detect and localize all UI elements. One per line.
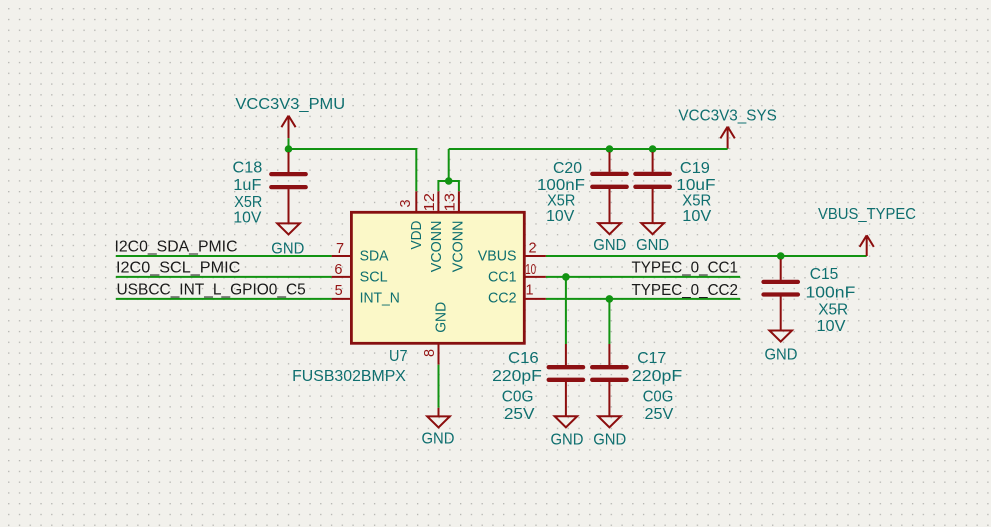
svg-text:SCL: SCL <box>360 270 388 286</box>
svg-text:GND: GND <box>636 237 669 254</box>
wire USBCC_INT_L_GPIO0_C5 <box>116 298 332 300</box>
svg-text:I2C0_SCL_PMIC: I2C0_SCL_PMIC <box>116 260 240 277</box>
wire VCONN to VCC3V3_SYS <box>449 148 728 150</box>
svg-text:TYPEC_0_CC2: TYPEC_0_CC2 <box>632 282 739 299</box>
junction C15 <box>777 252 785 260</box>
junction VCONN <box>445 177 453 185</box>
svg-text:VBUS_TYPEC: VBUS_TYPEC <box>818 206 916 223</box>
pin 1 <box>524 283 546 299</box>
svg-text:VBUS: VBUS <box>478 248 517 264</box>
svg-text:GND: GND <box>593 237 626 254</box>
svg-text:VDD: VDD <box>409 221 425 250</box>
svg-text:VCONN: VCONN <box>429 221 445 273</box>
svg-text:CC2: CC2 <box>488 290 517 306</box>
svg-text:X5R: X5R <box>682 192 711 209</box>
ground below C19 <box>636 223 669 254</box>
ground below C17 <box>593 416 626 448</box>
svg-text:6: 6 <box>334 262 342 278</box>
pin 13 <box>443 191 459 212</box>
svg-text:100nF: 100nF <box>806 285 856 302</box>
svg-text:10: 10 <box>525 262 536 278</box>
wire CC2 to C17 <box>608 299 610 344</box>
svg-text:10V: 10V <box>682 208 712 225</box>
wire GND pin 8 <box>438 365 440 408</box>
capacitor C20 <box>592 152 626 223</box>
wire CC1 <box>546 276 740 278</box>
svg-text:25V: 25V <box>504 406 535 423</box>
wire I2C0_SCL_PMIC <box>116 276 332 278</box>
svg-text:8: 8 <box>422 349 438 357</box>
capacitor C15 <box>764 259 798 331</box>
capacitor C18 <box>271 152 305 223</box>
junction C19 <box>649 145 657 153</box>
ground below C18 <box>271 223 304 257</box>
svg-text:INT_N: INT_N <box>360 290 400 306</box>
svg-text:VCC3V3_PMU: VCC3V3_PMU <box>235 96 345 113</box>
capacitor C19 <box>635 152 669 223</box>
junction CC2 <box>606 295 614 303</box>
svg-text:C0G: C0G <box>502 389 534 406</box>
svg-text:C19: C19 <box>680 160 710 177</box>
junction VCC3V3_PMU / C18 <box>285 145 293 153</box>
svg-text:C20: C20 <box>553 160 582 177</box>
pin 10 <box>524 262 546 278</box>
wire VCONN riser <box>448 149 450 181</box>
wire VCC3V3_PMU stem <box>288 138 290 149</box>
svg-text:7: 7 <box>336 241 344 257</box>
svg-text:FUSB302BMPX: FUSB302BMPX <box>292 368 406 385</box>
svg-text:25V: 25V <box>645 406 674 423</box>
svg-text:2: 2 <box>528 241 536 257</box>
svg-text:10V: 10V <box>233 210 262 227</box>
pin 12 <box>422 191 439 212</box>
svg-text:I2C0_SDA_PMIC: I2C0_SDA_PMIC <box>115 239 238 256</box>
svg-text:10V: 10V <box>546 208 575 225</box>
svg-text:GND: GND <box>551 432 584 449</box>
wire VBUS <box>546 255 867 257</box>
svg-text:10V: 10V <box>817 318 847 335</box>
svg-text:GND: GND <box>433 302 449 333</box>
svg-text:C0G: C0G <box>643 389 674 406</box>
svg-text:CC1: CC1 <box>488 270 517 286</box>
junction C20 <box>606 145 614 153</box>
svg-text:TYPEC_0_CC1: TYPEC_0_CC1 <box>632 259 739 276</box>
svg-text:VCC3V3_SYS: VCC3V3_SYS <box>678 108 777 125</box>
svg-text:X5R: X5R <box>547 192 575 209</box>
ground below U7 pin 8 <box>422 408 455 448</box>
svg-text:C18: C18 <box>233 159 263 176</box>
svg-text:220pF: 220pF <box>632 368 682 385</box>
svg-text:U7: U7 <box>389 348 408 365</box>
power symbol VBUS_TYPEC <box>818 206 916 256</box>
svg-text:SDA: SDA <box>360 248 389 264</box>
svg-text:X5R: X5R <box>818 302 848 319</box>
svg-text:C16: C16 <box>508 350 539 367</box>
wire CC2 <box>546 298 740 300</box>
svg-text:GND: GND <box>765 346 798 363</box>
ic U7 FUSB302BMPX body <box>351 212 524 343</box>
ground below C20 <box>593 223 626 254</box>
svg-text:220pF: 220pF <box>492 368 542 385</box>
pin 6 <box>332 262 352 278</box>
svg-text:1: 1 <box>526 283 534 299</box>
pin 8 <box>422 343 438 364</box>
ground below C16 <box>551 416 584 448</box>
svg-text:GND: GND <box>422 430 455 447</box>
label C16 value fields <box>492 350 542 423</box>
svg-text:USBCC_INT_L_GPIO0_C5: USBCC_INT_L_GPIO0_C5 <box>117 281 306 298</box>
svg-text:3: 3 <box>398 199 414 207</box>
svg-text:VCONN: VCONN <box>451 221 467 273</box>
label C19 value fields <box>676 160 715 225</box>
svg-text:100nF: 100nF <box>537 177 585 194</box>
svg-text:C17: C17 <box>637 350 666 367</box>
label C15 value fields <box>806 266 856 335</box>
ic U7 pin names <box>360 221 517 333</box>
wire CC1 to C16 <box>565 277 567 344</box>
svg-text:X5R: X5R <box>234 194 262 211</box>
label C18 value fields <box>233 159 263 226</box>
svg-text:5: 5 <box>335 283 343 299</box>
svg-text:GND: GND <box>271 240 304 257</box>
label C20 value fields <box>537 160 585 225</box>
pin 7 <box>332 241 352 257</box>
svg-text:1uF: 1uF <box>233 177 261 194</box>
power symbol VCC3V3_PMU <box>235 96 345 138</box>
capacitor C17 <box>592 344 626 416</box>
svg-text:GND: GND <box>593 432 626 449</box>
svg-text:10uF: 10uF <box>676 177 715 194</box>
power symbol VCC3V3_SYS <box>678 108 777 149</box>
ground below C15 <box>765 331 798 364</box>
wire VCC3V3_PMU to VDD pin <box>289 149 417 191</box>
junction CC1 <box>562 273 570 281</box>
label C17 value fields <box>632 350 682 423</box>
pin 5 <box>332 283 352 299</box>
wire VCONN goalpost to pins 12 13 <box>438 181 459 191</box>
pin 3 <box>398 191 416 212</box>
svg-text:13: 13 <box>443 193 459 212</box>
capacitor C16 <box>549 344 583 416</box>
svg-text:C15: C15 <box>810 266 839 283</box>
pin 2 <box>524 241 546 257</box>
wire I2C0_SDA_PMIC <box>116 255 332 257</box>
svg-text:12: 12 <box>422 193 438 212</box>
